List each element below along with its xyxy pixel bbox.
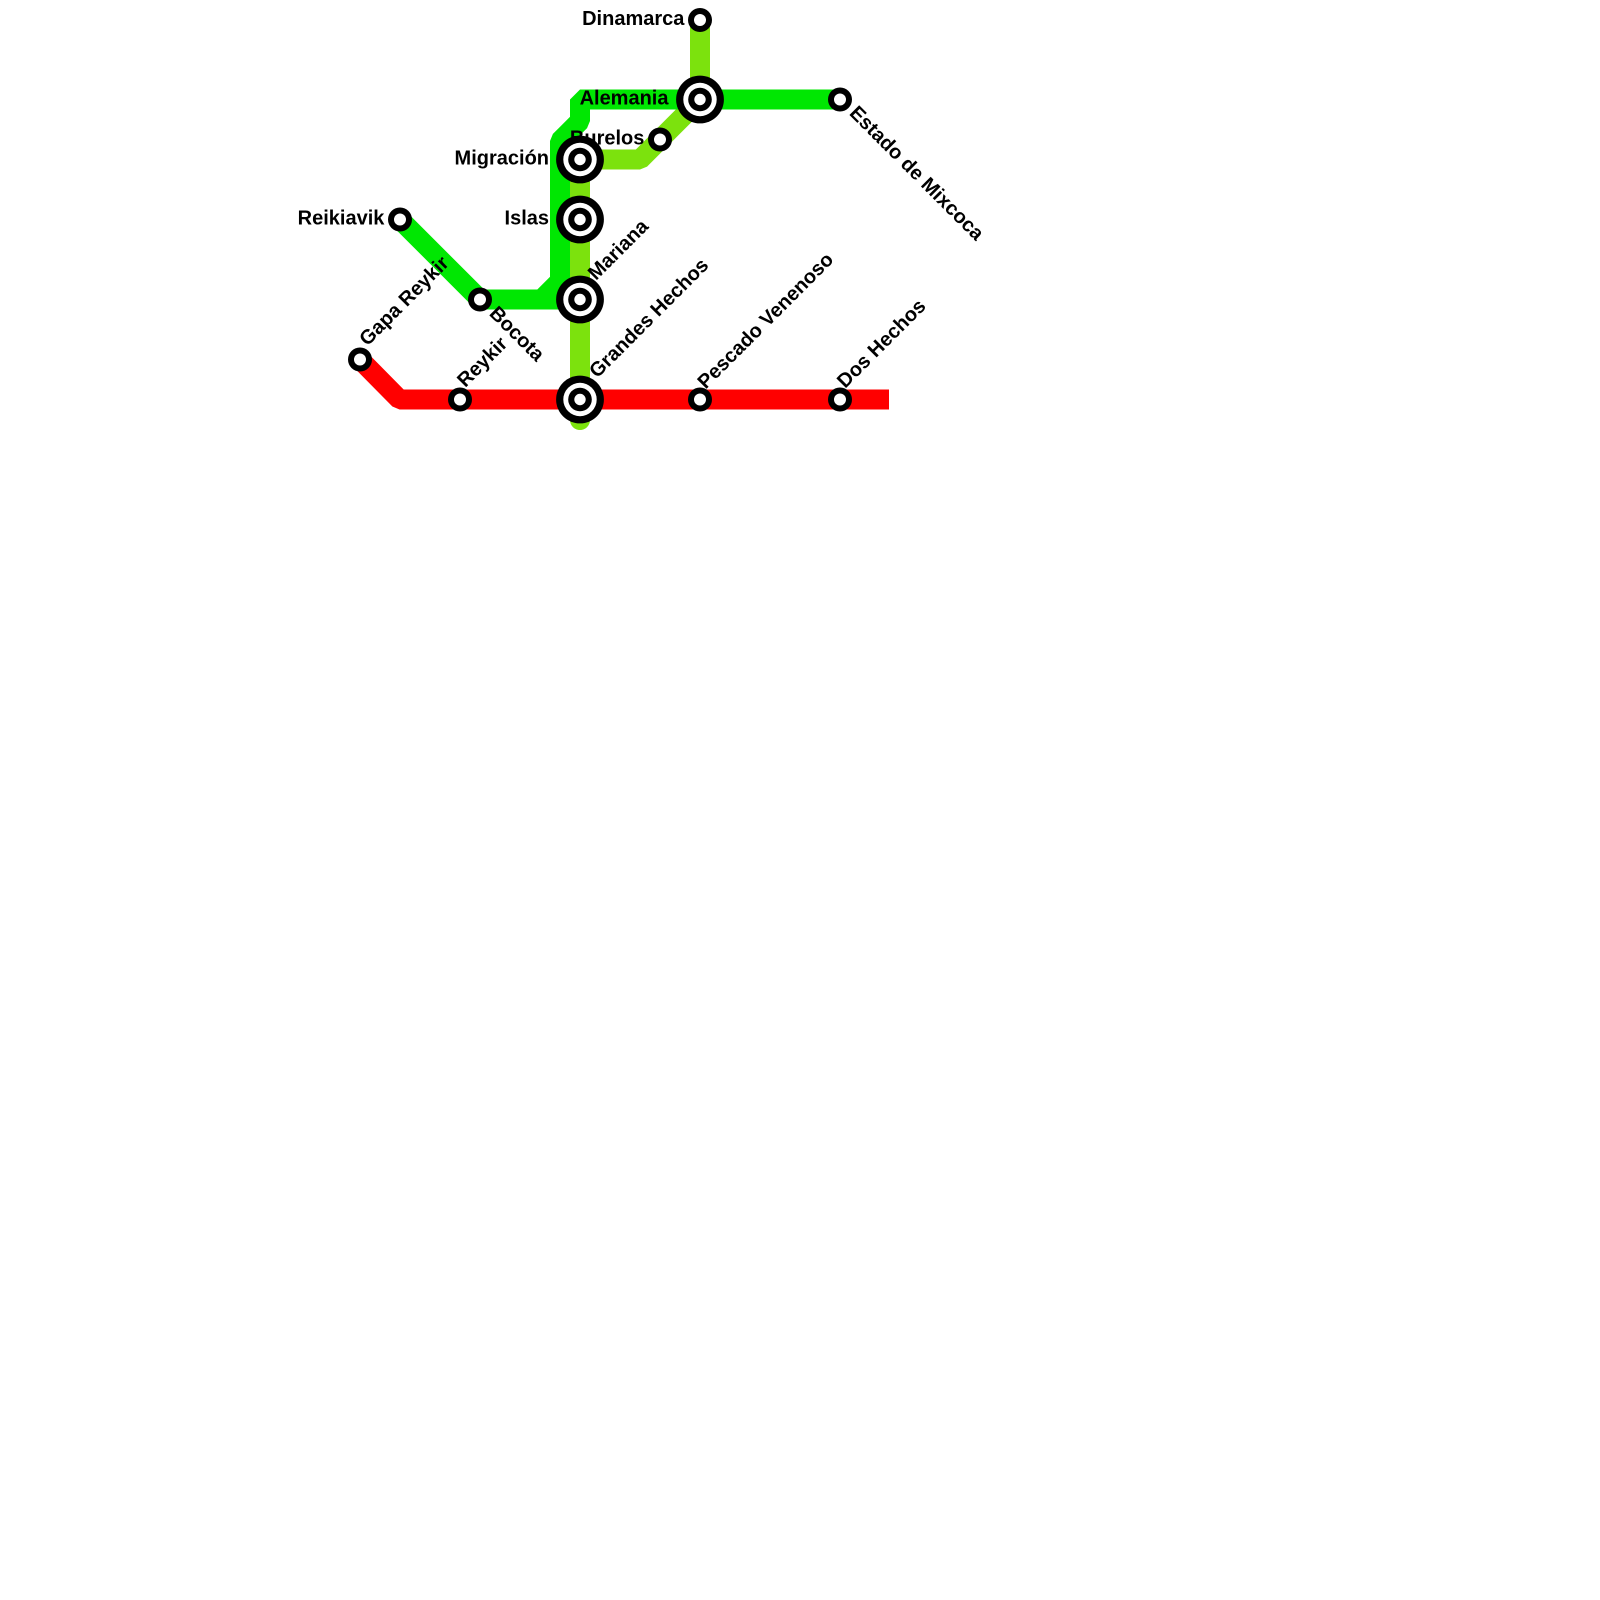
svg-text:Reikiavik: Reikiavik [298, 208, 386, 230]
station Alemania (interchange) [676, 76, 724, 124]
svg-text:Alemania: Alemania [580, 88, 670, 110]
svg-text:Reykir: Reykir [453, 333, 512, 392]
station Estado de Mixcoca [828, 88, 852, 112]
station Reykir [448, 388, 472, 412]
station Grandes Hechos (interchange) [556, 376, 604, 424]
station Reikiavik [388, 208, 412, 232]
svg-text:Dos Hechos: Dos Hechos [833, 295, 930, 392]
station Dos Hechos [828, 388, 852, 412]
line 2 tail cap [570, 410, 590, 430]
station Burelos [648, 128, 672, 152]
line 3 (red) GapaReykir-Reykir-GrandesHechos-PescadoVenenoso-DosHechos [360, 360, 889, 400]
station Islas (interchange) [556, 196, 604, 244]
svg-text:Pescado Venenoso: Pescado Venenoso [694, 249, 838, 393]
line 1 (green) Mariana-Bocota-Reikiavik [400, 220, 580, 300]
station Mariana (interchange) [556, 276, 604, 324]
svg-text:Islas: Islas [505, 208, 549, 230]
station Dinamarca [688, 8, 712, 32]
svg-text:Gapa Reykir: Gapa Reykir [355, 252, 453, 350]
station Bocota [468, 288, 492, 312]
svg-text:Migración: Migración [455, 148, 549, 170]
station Migracion (interchange) [556, 136, 604, 184]
station Pescado Venenoso [688, 388, 712, 412]
svg-text:Estado de Mixcoca: Estado de Mixcoca [845, 102, 988, 245]
line 2 (light green) Dinamarca-Alemania-Burelos-Migracion-Islas-Mariana-GrandesHechos [580, 20, 700, 420]
svg-text:Dinamarca: Dinamarca [582, 8, 685, 30]
line 1 (green) EstadoDeMixcoca-Alemania-(jog)-Mariana [542, 100, 841, 300]
station Gapa Reykir [348, 348, 372, 372]
